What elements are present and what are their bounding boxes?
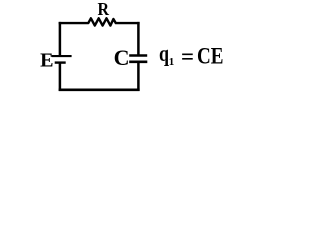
svg-text:1: 1 [169,56,175,68]
svg-text:R: R [98,0,110,19]
svg-text:CE: CE [197,43,224,68]
svg-text:E: E [40,50,53,72]
svg-text:q: q [159,41,169,66]
svg-text:=: = [181,44,194,69]
svg-text:C: C [114,45,130,70]
